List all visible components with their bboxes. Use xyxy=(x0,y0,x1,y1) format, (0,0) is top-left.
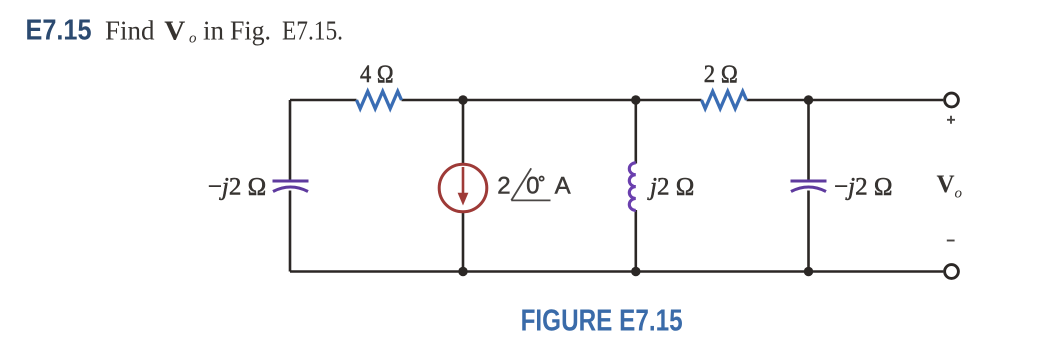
svg-text:E7.15: E7.15 xyxy=(26,15,92,47)
svg-text:j2 Ω: j2 Ω xyxy=(647,174,694,201)
svg-text:2: 2 xyxy=(497,173,510,200)
svg-text:4 Ω: 4 Ω xyxy=(360,61,394,88)
svg-text:o: o xyxy=(189,30,197,46)
svg-text:FIGURE E7.15: FIGURE E7.15 xyxy=(521,303,683,337)
svg-text:Find: Find xyxy=(105,16,155,46)
svg-text:V: V xyxy=(164,16,186,46)
svg-text:Fig.: Fig. xyxy=(230,16,271,46)
svg-text:A: A xyxy=(555,173,571,200)
svg-text:−j2 Ω: −j2 Ω xyxy=(834,174,893,201)
svg-text:0: 0 xyxy=(526,173,539,200)
svg-text:−j2 Ω: −j2 Ω xyxy=(208,174,267,201)
svg-text:2 Ω: 2 Ω xyxy=(704,61,738,88)
svg-text:o: o xyxy=(955,186,963,202)
svg-text:in: in xyxy=(203,16,225,46)
svg-text:E7.15.: E7.15. xyxy=(282,16,343,46)
svg-text:V: V xyxy=(937,171,955,198)
